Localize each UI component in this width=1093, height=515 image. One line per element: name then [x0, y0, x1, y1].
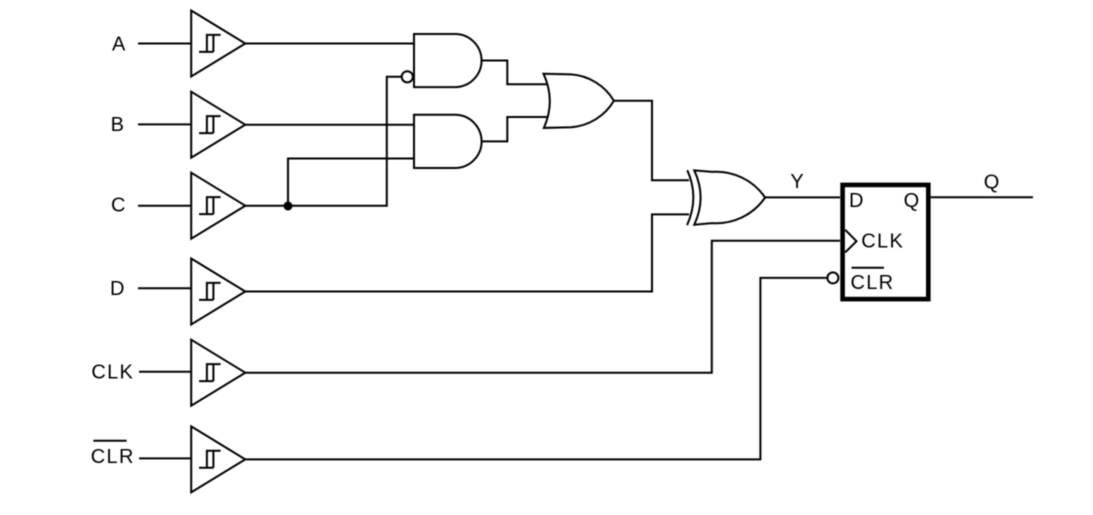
bubble on flip-flop CLR input [827, 272, 838, 283]
wire C to junction [245, 205, 288, 207]
wire A to AND1 [245, 43, 414, 45]
bubble on G1 lower input [402, 71, 413, 82]
wire CLR input [139, 457, 191, 459]
wire G1 output to OR [482, 61, 547, 85]
wire C branch up to AND2 lower input [288, 159, 414, 206]
buffer U6 (Schmitt trigger, input CLR) [191, 426, 245, 492]
wire C branch to AND1 inverted input [288, 77, 401, 206]
overline CLR pin label [852, 267, 885, 269]
svg-text:C: C [111, 195, 127, 217]
wire CLK to flip-flop [245, 241, 840, 373]
flip-flop CLK edge triangle [845, 230, 856, 253]
wire CLR to flip-flop bubble [245, 278, 826, 460]
buffer U2 (Schmitt trigger, input B) [191, 92, 245, 158]
or-gate G3 [544, 74, 614, 128]
flip-flop U7 box [843, 185, 929, 299]
and-gate G2 (bottom) [414, 115, 482, 168]
svg-text:Q: Q [984, 171, 1001, 193]
svg-text:Y: Y [790, 171, 805, 193]
wire CLK input [139, 371, 191, 373]
svg-text:D: D [849, 190, 865, 212]
svg-text:CLR: CLR [851, 272, 895, 294]
buffer U5 (Schmitt trigger, input CLK) [191, 340, 245, 406]
wire D input [138, 287, 191, 289]
and-gate G1 (top, inverted B input) [414, 34, 482, 87]
wire G2 output to OR [482, 117, 547, 141]
svg-text:CLR: CLR [91, 446, 135, 468]
wire B to AND2 [245, 124, 414, 126]
wire C input [138, 205, 191, 207]
wire OR output to XOR upper input [614, 101, 689, 180]
buffer U4 (Schmitt trigger, input D) [191, 259, 245, 325]
wire A input [138, 43, 191, 45]
wire B input [138, 123, 191, 125]
svg-text:Q: Q [904, 190, 921, 212]
wire Y (XOR output to flip-flop D) [765, 196, 840, 198]
buffer U3 (Schmitt trigger, input C) [191, 173, 245, 239]
svg-text:D: D [110, 278, 126, 300]
svg-text:CLK: CLK [91, 362, 134, 384]
wire Q output [931, 196, 1033, 198]
svg-text:B: B [111, 114, 126, 136]
svg-text:A: A [112, 33, 127, 55]
svg-text:CLK: CLK [861, 230, 904, 252]
xor-gate G4 [687, 170, 765, 225]
buffer U1 (Schmitt trigger, input A) [191, 11, 245, 77]
overline CLR input label [93, 440, 126, 442]
junction dot C node [284, 202, 293, 211]
wire D to XOR lower input [245, 214, 689, 291]
